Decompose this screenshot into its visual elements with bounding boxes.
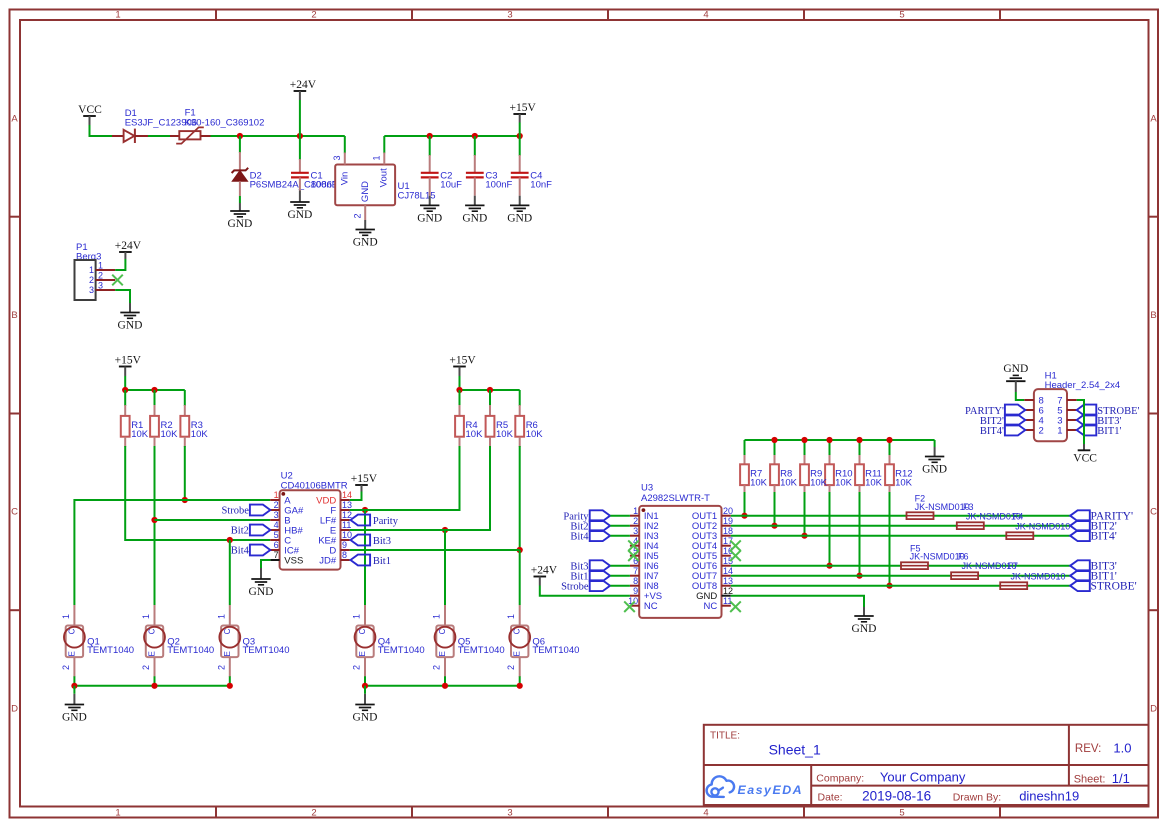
- svg-text:10K: 10K: [810, 478, 828, 489]
- svg-text:1: 1: [98, 261, 103, 271]
- svg-text:JK-NSMD010: JK-NSMD010: [1015, 522, 1070, 532]
- no-connect X U3 pin11: [730, 601, 741, 612]
- H1 pin 8: [1024, 399, 1034, 401]
- junction Q6 tap on D wire: [517, 547, 523, 553]
- ground below U2 VSS: [260, 566, 262, 568]
- svg-text:GND: GND: [249, 586, 274, 598]
- U3 pin 14 OUT7: [722, 575, 731, 577]
- U3 pin 6 IN6: [630, 565, 639, 567]
- svg-text:Bit2: Bit2: [231, 526, 249, 537]
- svg-text:2: 2: [274, 500, 279, 510]
- U3 pin 4 IN4: [630, 545, 639, 547]
- wire R1 bottom to U2 pin5 C: [125, 446, 270, 540]
- svg-text:2: 2: [506, 665, 516, 670]
- svg-text:2: 2: [216, 665, 226, 670]
- resistor R10 10K: [829, 440, 831, 456]
- svg-text:Bit4: Bit4: [231, 546, 250, 557]
- svg-text:3: 3: [507, 10, 512, 21]
- svg-text:Strobe: Strobe: [221, 506, 249, 517]
- svg-text:TEMT1040: TEMT1040: [167, 645, 214, 656]
- svg-text:10nF: 10nF: [530, 179, 552, 190]
- junction R5 top: [487, 387, 493, 393]
- svg-text:GND: GND: [62, 712, 87, 724]
- ground below C4: [519, 196, 521, 206]
- svg-text:Bit1: Bit1: [373, 556, 391, 567]
- svg-text:+15V: +15V: [351, 473, 378, 485]
- H1 pin 3: [1067, 419, 1077, 421]
- U3 pin 18 OUT3: [722, 535, 731, 537]
- U3 pin 7 IN7: [630, 575, 639, 577]
- svg-text:+24V: +24V: [531, 565, 558, 577]
- svg-text:GND: GND: [922, 464, 947, 476]
- wire Q1-Q3 emitters to ground: [74, 685, 229, 687]
- svg-text:TEMT1040: TEMT1040: [532, 645, 579, 656]
- ground at end of R rail: [934, 440, 936, 447]
- no-connect X U3 pin10: [624, 601, 635, 612]
- net flag BIT4&#39;: [1070, 530, 1090, 541]
- junction at C2: [427, 133, 433, 139]
- junction R12 top rail: [886, 437, 892, 443]
- net flag PARITY&#39;: [1070, 510, 1090, 521]
- svg-text:2: 2: [1039, 425, 1044, 436]
- net flag VCC below H1: [1078, 449, 1091, 451]
- svg-text:2: 2: [352, 213, 362, 218]
- junction R3/A wire: [182, 497, 188, 503]
- U2 pin 7 VSS: [270, 559, 279, 561]
- resistor R7 10K: [744, 440, 746, 456]
- U2 pin 12 LF#: [341, 519, 350, 521]
- svg-text:Sheet:: Sheet:: [1074, 774, 1106, 786]
- svg-text:E: E: [223, 651, 232, 656]
- svg-text:E: E: [358, 651, 367, 656]
- svg-text:B: B: [11, 310, 17, 321]
- resistor R8 10K: [774, 440, 776, 456]
- svg-text:4: 4: [703, 808, 708, 819]
- svg-text:13: 13: [723, 576, 733, 586]
- svg-text:1: 1: [115, 808, 120, 819]
- net flag +24V top: [294, 90, 307, 92]
- svg-text:D: D: [11, 704, 18, 715]
- junction R11 top rail: [856, 437, 862, 443]
- svg-text:E: E: [148, 651, 157, 656]
- junction R2/B wire: [151, 517, 157, 523]
- U3 pin 10 NC: [630, 605, 639, 607]
- svg-text:1: 1: [432, 614, 442, 619]
- diode D1 ES3JF: [112, 135, 123, 137]
- svg-text:C: C: [358, 628, 367, 634]
- wire U3 output row to BIT2&#39;: [731, 525, 1070, 527]
- capacitor C2: [429, 136, 431, 156]
- U3 pin1 marker dot: [642, 508, 646, 512]
- svg-text:8: 8: [342, 550, 347, 560]
- U2 pin 10 KE#: [341, 539, 350, 541]
- svg-text:4: 4: [703, 10, 708, 21]
- wire +15V rail R4-R6: [460, 389, 520, 391]
- svg-text:VSS: VSS: [284, 555, 303, 566]
- svg-text:2: 2: [311, 808, 316, 819]
- svg-text:E: E: [438, 651, 447, 656]
- svg-text:2: 2: [633, 516, 638, 526]
- svg-text:3: 3: [633, 526, 638, 536]
- U3 pin 15 OUT6: [722, 565, 731, 567]
- svg-text:3: 3: [98, 281, 103, 291]
- svg-text:+24V: +24V: [290, 79, 317, 91]
- junction R10 to output wire: [826, 563, 832, 569]
- U2 pin 1 A: [270, 499, 279, 501]
- no-connect X U3 pin4: [628, 540, 639, 551]
- wire junction down to Q3: [229, 540, 231, 605]
- U3 pin 1 IN1: [630, 515, 639, 517]
- H1 pin 1: [1067, 429, 1077, 431]
- U2 pin 9 D: [341, 549, 350, 551]
- svg-text:20: 20: [723, 506, 733, 516]
- resistor R12 10K: [889, 440, 891, 456]
- U2 pin1 marker dot: [281, 492, 285, 496]
- junction at C1/+24V tap: [297, 133, 303, 139]
- svg-text:1: 1: [216, 614, 226, 619]
- frame row ticks left/right: [10, 216, 21, 218]
- svg-text:dineshn19: dineshn19: [1019, 789, 1079, 804]
- wire R8 bottom: [774, 492, 776, 526]
- svg-text:Date:: Date:: [818, 791, 843, 803]
- svg-text:1: 1: [506, 614, 516, 619]
- svg-text:1: 1: [352, 614, 362, 619]
- svg-text:19: 19: [723, 516, 733, 526]
- svg-text:5: 5: [899, 808, 904, 819]
- U2 pin 3 B: [270, 519, 279, 521]
- svg-text:8: 8: [633, 576, 638, 586]
- svg-text:VCC: VCC: [1073, 452, 1097, 464]
- junction R8 top rail: [771, 437, 777, 443]
- svg-text:D: D: [1150, 704, 1157, 715]
- svg-text:1: 1: [633, 506, 638, 516]
- wire U2 pin1 A to Q1 column: [74, 500, 270, 605]
- wire R11 bottom: [859, 492, 861, 576]
- svg-text:Bit3: Bit3: [373, 536, 391, 547]
- wire R7-R12 top rail: [745, 439, 935, 441]
- fuse F7 JK-NSMD010: [1000, 582, 1027, 589]
- U3 pin 2 IN2: [630, 525, 639, 527]
- wire U3 output row to PARITY&#39;: [731, 515, 1070, 517]
- svg-text:Parity: Parity: [373, 516, 399, 527]
- ground below C3: [474, 196, 476, 206]
- svg-text:100nF: 100nF: [311, 179, 338, 190]
- svg-text:Sheet_1: Sheet_1: [769, 742, 821, 758]
- junction R11 to output wire: [856, 573, 862, 579]
- wire U2 pin9 D to R6 column: [350, 549, 520, 551]
- junction at D2 tap: [237, 133, 243, 139]
- fuse F4 JK-NSMD010: [1006, 532, 1033, 539]
- net flag +15V above R1: [119, 366, 132, 368]
- U3 pin 17 OUT4: [722, 545, 731, 547]
- svg-text:2: 2: [432, 665, 442, 670]
- wire R9 bottom: [804, 492, 806, 536]
- wire junction down to Q6: [519, 550, 521, 605]
- U2 pin 6 IC#: [270, 549, 279, 551]
- svg-text:7: 7: [633, 566, 638, 576]
- net flag STROBEb at H1 pin5: [1077, 405, 1097, 416]
- ground below C2: [429, 196, 431, 206]
- ground above H1 pin8: [1013, 374, 1019, 376]
- svg-text:B: B: [1150, 310, 1156, 321]
- voltage regulator U1 CJ78L15: [335, 165, 395, 206]
- svg-text:1: 1: [274, 490, 279, 500]
- svg-text:2019-08-16: 2019-08-16: [862, 788, 931, 803]
- wire R7 bottom: [744, 492, 746, 516]
- U3 pin 16 OUT5: [722, 555, 731, 557]
- svg-text:Vin: Vin: [340, 172, 351, 186]
- svg-text:GND: GND: [287, 209, 312, 221]
- junction at C4: [517, 133, 523, 139]
- resistor R4 10K: [459, 390, 461, 406]
- wire junction down to Q4: [364, 510, 366, 605]
- svg-text:2: 2: [89, 275, 94, 285]
- svg-text:Your Company: Your Company: [880, 770, 966, 785]
- svg-text:JK-NSMD010: JK-NSMD010: [915, 502, 970, 512]
- wire U3 output row to BIT3&#39;: [731, 565, 1070, 567]
- resistor R3 10K: [184, 390, 186, 406]
- wire R10 bottom: [829, 492, 831, 566]
- svg-text:GND: GND: [462, 213, 487, 225]
- net flag +15V at U2 VDD: [355, 484, 368, 486]
- svg-text:2: 2: [98, 271, 103, 281]
- net flag BIT2&#39;: [1070, 520, 1090, 531]
- svg-text:4: 4: [274, 520, 279, 530]
- svg-text:13: 13: [342, 500, 352, 510]
- svg-text:GND: GND: [507, 213, 532, 225]
- U3 pin 3 IN3: [630, 535, 639, 537]
- svg-text:11: 11: [342, 520, 351, 530]
- net flag STROBE&#39;: [1070, 580, 1090, 591]
- net flag BIT3&#39;: [1070, 560, 1090, 571]
- wire U2 pin14 to +15V: [350, 492, 362, 501]
- resistor R9 10K: [804, 440, 806, 456]
- wire U3 output row to BIT1&#39;: [731, 575, 1070, 577]
- wire P1 pin1 to +24V: [115, 259, 125, 270]
- frame column ticks top/bottom: [215, 10, 217, 21]
- wire R2 bottom through B junction down to Q2: [154, 446, 156, 605]
- svg-text:TEMT1040: TEMT1040: [87, 645, 134, 656]
- capacitor C1: [299, 136, 301, 160]
- svg-text:BIT4': BIT4': [1091, 531, 1117, 543]
- wire U2 pin11 E to R5 column: [350, 529, 490, 531]
- svg-text:BIT4': BIT4': [980, 426, 1004, 437]
- wire U2 pin7 VSS to ground: [261, 560, 270, 568]
- svg-text:JK-NSMD010: JK-NSMD010: [1011, 571, 1066, 581]
- svg-text:1: 1: [115, 10, 120, 21]
- svg-text:10K: 10K: [161, 429, 179, 440]
- svg-text:A: A: [1150, 114, 1157, 125]
- svg-text:JD#: JD#: [319, 555, 337, 566]
- svg-text:10K: 10K: [750, 478, 768, 489]
- svg-text:3: 3: [332, 155, 342, 160]
- net flag Bit1 at U2 pin8: [351, 555, 371, 566]
- wire U2 pin3 B: [155, 519, 271, 521]
- wire U3 output row to STROBE&#39;: [731, 585, 1070, 587]
- H1 pin 7: [1067, 399, 1077, 401]
- svg-text:10: 10: [342, 530, 352, 540]
- net flag +24V at U3 +VS: [534, 576, 547, 578]
- svg-text:5: 5: [899, 10, 904, 21]
- svg-text:C: C: [513, 628, 522, 634]
- no-connect X U3 pin16: [730, 550, 741, 561]
- svg-text:14: 14: [342, 490, 352, 500]
- svg-text:STROBE': STROBE': [1091, 581, 1137, 593]
- svg-text:GND: GND: [852, 623, 877, 635]
- varistor F1 K30-160: [170, 135, 179, 137]
- svg-text:NC: NC: [703, 601, 717, 612]
- svg-text:7: 7: [274, 550, 279, 560]
- svg-text:12: 12: [342, 510, 352, 520]
- svg-text:U3: U3: [641, 483, 653, 494]
- net flag BIT3b at H1 pin3: [1077, 415, 1097, 426]
- U2 pin 8 JD#: [341, 559, 350, 561]
- ground below Q1: [73, 686, 75, 694]
- resistor R11 10K: [859, 440, 861, 456]
- H1 pin 6: [1024, 409, 1034, 411]
- svg-text:9: 9: [633, 586, 638, 596]
- svg-text:10uF: 10uF: [440, 179, 462, 190]
- svg-text:C: C: [223, 628, 232, 634]
- svg-text:Drawn By:: Drawn By:: [953, 792, 1001, 804]
- svg-text:C: C: [67, 628, 76, 634]
- title block frame: [704, 725, 1149, 805]
- fuse F6 JK-NSMD010: [951, 572, 978, 579]
- svg-text:10K: 10K: [191, 429, 209, 440]
- junction R1 top: [122, 387, 128, 393]
- resistor R5 10K: [489, 390, 491, 406]
- net flag VCC: [83, 115, 96, 117]
- svg-text:10K: 10K: [131, 429, 149, 440]
- svg-text:GND: GND: [353, 237, 378, 249]
- junction Q5 tap on E wire: [442, 527, 448, 533]
- svg-text:Strobe: Strobe: [561, 581, 589, 592]
- U2 pin 2 GA#: [270, 509, 279, 511]
- svg-text:E: E: [67, 651, 76, 656]
- wire R3 bottom to A junction: [184, 446, 186, 500]
- EasyEDA logo: [707, 776, 734, 797]
- svg-text:10K: 10K: [526, 429, 544, 440]
- resistor R2 10K: [154, 390, 156, 406]
- no-connect X U3 pin17: [730, 540, 741, 551]
- svg-text:JK-NSMD010: JK-NSMD010: [962, 561, 1017, 571]
- zener diode D2 P6SMB24A: [239, 136, 241, 153]
- svg-text:NC: NC: [644, 601, 658, 612]
- fuse F2 JK-NSMD010: [907, 512, 934, 519]
- svg-text:18: 18: [723, 526, 733, 536]
- wire R5 bottom to U2 pin11 E wire: [350, 446, 490, 530]
- fuse F3 JK-NSMD010: [957, 522, 984, 529]
- svg-text:GND: GND: [353, 712, 378, 724]
- wire H1 pin7 to VCC: [1077, 400, 1084, 444]
- junction at C3: [472, 133, 478, 139]
- svg-text:TEMT1040: TEMT1040: [243, 645, 290, 656]
- wire Vout rail to +15V: [384, 135, 519, 137]
- svg-text:VCC: VCC: [78, 104, 102, 116]
- U3 pin 9 +VS: [630, 595, 639, 597]
- svg-text:C: C: [148, 628, 157, 634]
- junction R12 to output wire: [886, 583, 892, 589]
- U3 pin 13 OUT8: [722, 585, 731, 587]
- svg-text:+24V: +24V: [115, 240, 142, 252]
- svg-text:10K: 10K: [895, 478, 913, 489]
- wire VCC to D1: [90, 125, 122, 136]
- svg-text:1.0: 1.0: [1113, 741, 1131, 756]
- wire +24V stub: [299, 100, 301, 136]
- ground below U1: [364, 220, 366, 230]
- junction R2 top: [151, 387, 157, 393]
- svg-text:+15V: +15V: [510, 102, 537, 114]
- svg-text:2: 2: [141, 665, 151, 670]
- svg-text:GND: GND: [227, 218, 252, 230]
- svg-text:2: 2: [61, 665, 71, 670]
- junction R9 top rail: [801, 437, 807, 443]
- svg-text:1: 1: [61, 614, 71, 619]
- svg-text:10K: 10K: [466, 429, 484, 440]
- svg-text:C: C: [11, 507, 18, 518]
- svg-text:2: 2: [311, 10, 316, 21]
- svg-text:Vout: Vout: [379, 168, 390, 187]
- svg-text:BIT1': BIT1': [1097, 426, 1121, 437]
- junction R7 to output wire: [741, 513, 747, 519]
- svg-text:1: 1: [1057, 425, 1062, 436]
- U3 pin 19 OUT2: [722, 525, 731, 527]
- svg-text:1/1: 1/1: [1112, 771, 1130, 786]
- svg-text:10K: 10K: [496, 429, 514, 440]
- svg-text:+15V: +15V: [449, 355, 476, 367]
- svg-text:EasyEDA: EasyEDA: [738, 783, 804, 797]
- ground below U3 pin12: [863, 605, 865, 607]
- svg-text:TEMT1040: TEMT1040: [378, 645, 425, 656]
- wire P1 pin3 to ground: [115, 290, 130, 305]
- svg-text:C: C: [1150, 507, 1157, 518]
- svg-text:E: E: [513, 651, 522, 656]
- svg-text:A: A: [11, 114, 18, 125]
- wire junction down to Q5: [444, 530, 446, 605]
- svg-text:12: 12: [723, 586, 733, 596]
- svg-text:9: 9: [342, 540, 347, 550]
- wire F1 to Vin corner: [211, 135, 345, 137]
- svg-text:C: C: [438, 628, 447, 634]
- svg-text:1: 1: [141, 614, 151, 619]
- net flag Bit3 at U2 pin10: [351, 535, 371, 546]
- U3 pin 5 IN5: [630, 555, 639, 557]
- resistor R6 10K: [519, 390, 521, 406]
- fuse F5 JK-NSMD010: [901, 562, 928, 569]
- U2 pin 14 VDD: [341, 499, 350, 501]
- wire R4 bottom to U2 pin13 F wire: [350, 446, 460, 510]
- junction R4 top: [456, 387, 462, 393]
- svg-text:3: 3: [507, 808, 512, 819]
- U2 pin 5 C: [270, 539, 279, 541]
- wire U3 output row to BIT4&#39;: [731, 535, 1070, 537]
- svg-text:10K: 10K: [780, 478, 798, 489]
- wire U3 pin12 GND to ground: [731, 596, 864, 607]
- junction R9 to output wire: [801, 533, 807, 539]
- svg-text:K30-160_C369102: K30-160_C369102: [185, 118, 265, 129]
- net flag +15V above R4: [453, 366, 466, 368]
- svg-text:10K: 10K: [865, 478, 883, 489]
- svg-text:GND: GND: [417, 213, 442, 225]
- ground below P1: [129, 303, 131, 313]
- svg-text:TITLE:: TITLE:: [710, 731, 740, 742]
- svg-text:5: 5: [274, 530, 279, 540]
- wire R12 bottom: [889, 492, 891, 586]
- H1 pin 4: [1024, 419, 1034, 421]
- U3 pin 8 IN8: [630, 585, 639, 587]
- svg-text:2: 2: [352, 665, 362, 670]
- ground below C1: [299, 191, 301, 203]
